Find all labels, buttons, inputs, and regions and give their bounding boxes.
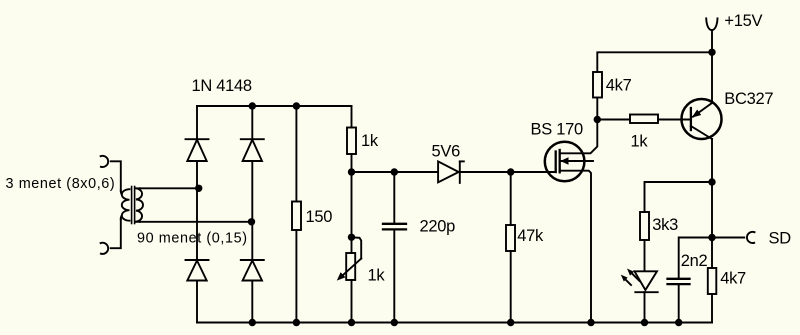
label 3 menet (8x0,6): [6, 176, 116, 192]
diode D4 bottom-right 1N4148: [241, 260, 264, 281]
wire secondary top: [140, 187, 199, 189]
svg-text:90 menet (0,15): 90 menet (0,15): [137, 230, 248, 246]
label 5V6: [432, 142, 461, 160]
node dot rail/150: [293, 319, 300, 326]
node dot trimmer wiper: [348, 234, 355, 241]
label 1k upper: [361, 132, 379, 150]
node dot secondary top / left column: [195, 185, 202, 192]
diode D3 bottom-left 1N4148: [186, 260, 209, 281]
svg-text:3 menet (8x0,6): 3 menet (8x0,6): [6, 176, 116, 192]
svg-text:3k3: 3k3: [652, 216, 678, 234]
capacitor C1 220p: [383, 224, 406, 230]
diode D1 top-left 1N4148: [186, 139, 209, 161]
svg-text:BC327: BC327: [724, 90, 773, 108]
svg-text:5V6: 5V6: [432, 142, 461, 160]
wire 150 column: [295, 106, 297, 323]
wire base: [597, 119, 691, 121]
wire 1k/trimmer column: [351, 106, 353, 323]
wire LED to rail: [644, 292, 646, 322]
connector +15V: [706, 18, 717, 30]
wire source: [560, 171, 592, 323]
node dot collector/3k3: [708, 178, 715, 185]
label 3k3: [652, 216, 678, 234]
label 150: [306, 208, 333, 226]
wire collector to 3k3: [645, 182, 713, 212]
wire main bus: [352, 171, 556, 173]
node dot rail/2n2: [675, 319, 682, 326]
node dot secondary bottom / right column: [248, 218, 255, 225]
wire 4k7b to rail: [711, 294, 713, 323]
node dot rail/right column: [249, 319, 256, 326]
node dot bus / 47k: [507, 168, 514, 175]
transistor Q2 BC327: [682, 99, 722, 139]
svg-text:1k: 1k: [368, 267, 386, 285]
svg-text:4k7: 4k7: [720, 270, 746, 288]
svg-text:47k: 47k: [517, 227, 544, 245]
node dot top rail / right column: [249, 102, 256, 109]
node dot rail/trimmer: [348, 319, 355, 326]
label BS 170: [531, 120, 583, 138]
connector primary top: [101, 156, 109, 167]
label 1N 4148: [192, 77, 252, 95]
label 1k trimmer: [368, 267, 386, 285]
svg-text:150: 150: [306, 208, 333, 226]
wire drain: [560, 120, 598, 154]
wire emitter: [711, 52, 713, 103]
label +15V: [724, 12, 762, 30]
node dot base/drain/4k7: [594, 116, 601, 123]
resistor R 1k (top of trimmer column): [347, 128, 356, 155]
wire 2n2 to rail: [678, 284, 680, 322]
node dot SD/2n2: [708, 234, 715, 241]
svg-text:1k: 1k: [631, 132, 649, 150]
label 2n2: [681, 252, 708, 270]
wire 47k column: [510, 172, 512, 323]
wire primary top lead: [111, 161, 121, 191]
node dot rail/47k: [507, 319, 514, 326]
capacitor C2 2n2: [668, 279, 690, 284]
label 4k7 lower: [720, 270, 746, 288]
wire 4k7 to node: [596, 98, 598, 120]
wire right bridge column: [251, 106, 253, 323]
svg-text:2n2: 2n2: [681, 252, 708, 270]
node dot top rail / 150 column: [293, 102, 300, 109]
trimmer P1 1k: [337, 237, 361, 280]
zener diode 5V6: [438, 161, 464, 183]
svg-text:220p: 220p: [420, 218, 456, 236]
connector SD: [747, 232, 755, 243]
wire collector: [711, 139, 713, 268]
svg-text:1k: 1k: [361, 132, 379, 150]
resistor R 47k: [506, 225, 515, 251]
resistor R 4k7 (lower): [708, 268, 717, 294]
wire left bridge column: [196, 106, 198, 323]
node dot bus / 1k trimmer: [348, 168, 355, 175]
node dot bus / 220p: [391, 168, 398, 175]
wire secondary bottom: [140, 221, 252, 223]
wire 220p column: [393, 172, 395, 323]
transformer TR1: [121, 187, 143, 224]
wire +15V feed: [711, 30, 713, 52]
wire top rail: [197, 105, 352, 107]
label SD: [769, 230, 792, 248]
LED D5: [621, 269, 658, 293]
wire SD stub: [712, 237, 744, 239]
svg-text:1N 4148: 1N 4148: [192, 77, 252, 95]
wire primary bottom lead: [111, 219, 121, 249]
svg-text:4k7: 4k7: [606, 76, 632, 94]
label 1k base: [631, 132, 649, 150]
label 47k: [517, 227, 544, 245]
node dot rail/LED: [641, 319, 648, 326]
label 90 menet (0,15): [137, 230, 248, 246]
connector primary bottom: [101, 243, 109, 254]
wire 3k3 to LED: [644, 240, 646, 271]
svg-text:BS 170: BS 170: [531, 120, 583, 138]
node dot rail/220p: [391, 319, 398, 326]
node dot rail/source: [587, 319, 594, 326]
svg-text:SD: SD: [769, 230, 792, 248]
wire 2n2 branch: [679, 238, 712, 279]
resistor R 150: [292, 202, 301, 231]
svg-text:+15V: +15V: [724, 12, 762, 30]
diode D2 top-right 1N4148: [241, 139, 264, 161]
mosfet Q1 BS170: [545, 142, 593, 182]
label 220p: [420, 218, 456, 236]
resistor R 4k7 (upper): [593, 72, 602, 98]
resistor R 1k (base): [630, 115, 658, 124]
resistor R 3k3: [640, 212, 649, 240]
wire bottom rail: [197, 322, 712, 324]
node dot +15V: [708, 49, 715, 56]
label BC327: [724, 90, 773, 108]
wire top right rail: [597, 52, 712, 72]
label 4k7 upper: [606, 76, 632, 94]
